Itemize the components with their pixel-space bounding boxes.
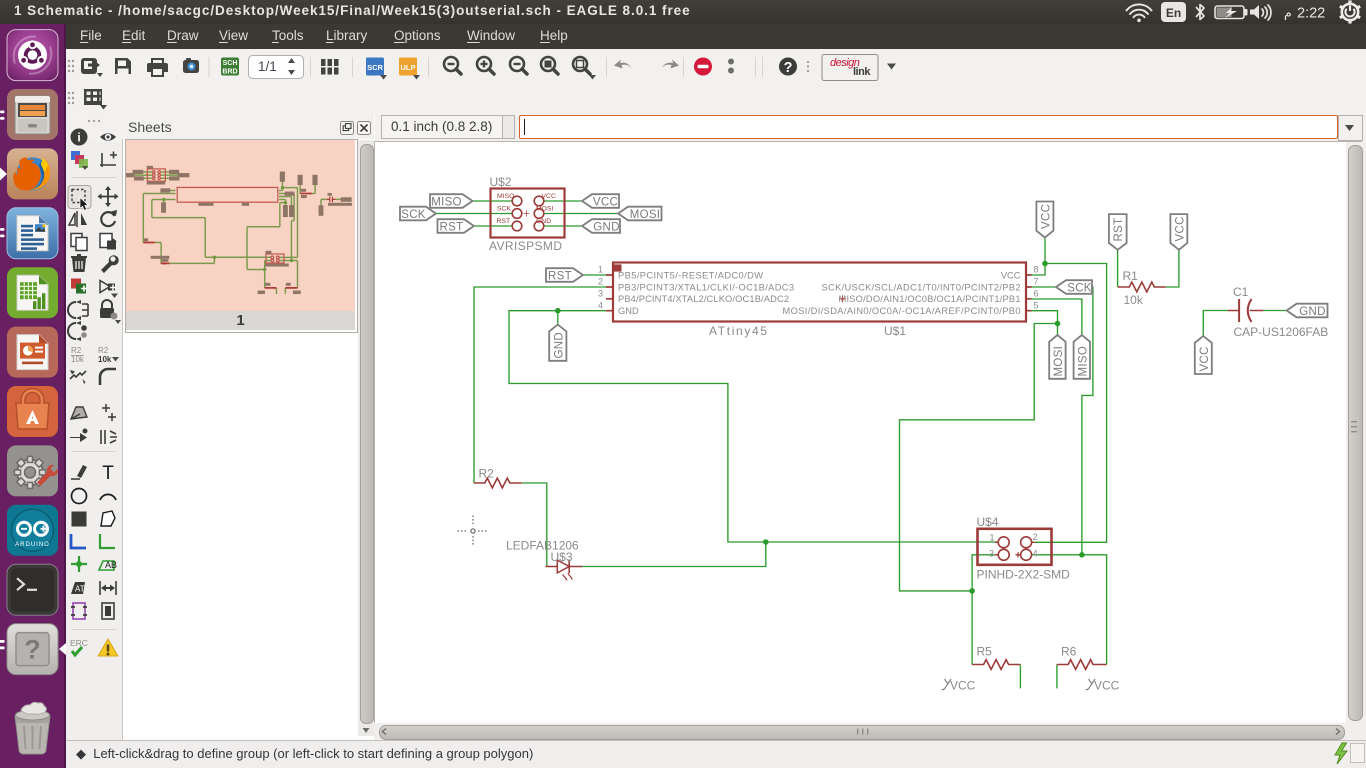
- coordinate display: [381, 115, 508, 139]
- svg-text:SCR: SCR: [367, 63, 383, 72]
- svg-text:RST: RST: [440, 222, 464, 234]
- svg-text:10k: 10k: [1124, 293, 1144, 307]
- U$4 pin stubs and origin cross: [995, 542, 1035, 557]
- supply flag GND below U$1 pin 4: [549, 325, 566, 361]
- wire LED U$3 to node at pin1 net: [582, 542, 766, 567]
- supply flag VCC above U$1 pin 8: [1036, 202, 1053, 238]
- svg-text:ULP: ULP: [401, 63, 416, 72]
- svg-text:T: T: [102, 463, 114, 484]
- svg-text:VCC: VCC: [542, 193, 556, 200]
- supply flag VCC at C1: [1195, 336, 1212, 374]
- svg-text:SCK: SCK: [401, 209, 426, 221]
- canvas horizontal scrollbar: [374, 723, 1362, 740]
- svg-text:AB: AB: [105, 560, 117, 570]
- U$1 left pin names: [618, 271, 794, 316]
- wire U$1 pin 8 to VCC flag: [1032, 238, 1046, 276]
- U$1 pin stubs: [606, 275, 1032, 311]
- wire U$1 pin 6 to MISO flag: [1032, 299, 1082, 335]
- wire U$4 pin 4 to R6: [1032, 555, 1107, 665]
- junction LED net: [763, 539, 769, 545]
- wire U$1 pin 2 to R2: [474, 287, 606, 483]
- svg-text:i: i: [77, 131, 80, 145]
- value 10k: [1124, 293, 1144, 307]
- wire U$1 pin 4 GND net: [509, 311, 998, 542]
- svg-text:AVRISPSMD: AVRISPSMD: [489, 239, 562, 253]
- svg-text:VCC: VCC: [950, 679, 976, 693]
- svg-text:MISO: MISO: [1077, 346, 1089, 377]
- toolbar icons: [66, 49, 966, 114]
- net flag MISO: [430, 194, 473, 208]
- svg-text:R2: R2: [71, 346, 82, 355]
- svg-text:MISO/DO/AIN1/OC0B/OC1A/PCINT1/: MISO/DO/AIN1/OC0B/OC1A/PCINT1/PB1: [839, 294, 1021, 304]
- wire U$1 pin 5 to MOSI flag: [1032, 311, 1058, 335]
- label U$4: [977, 515, 999, 529]
- header U$4 PINHD-2X2-SMD body: [978, 529, 1052, 565]
- U$1 pin numbers 8 7 6 5: [1034, 265, 1039, 311]
- svg-text:SCK/USCK/SCL/ADC1/T0/INT0/PCIN: SCK/USCK/SCL/ADC1/T0/INT0/PCINT2/PB2: [822, 282, 1021, 292]
- U$4 pin numbers: [989, 532, 1038, 558]
- net flag MISO below U$1: [1074, 335, 1090, 379]
- connector U$2 AVRISPSMD body: [491, 189, 565, 238]
- svg-text:SCK: SCK: [497, 206, 511, 213]
- svg-text:PB5/PCINT5/-RESET/ADC0/DW: PB5/PCINT5/-RESET/ADC0/DW: [618, 271, 763, 281]
- wire R5 open end: [1019, 665, 1021, 689]
- svg-text:AT: AT: [75, 585, 85, 594]
- wire VCC net to U$4 pin 2: [1032, 264, 1107, 543]
- svg-text:U$2: U$2: [490, 175, 512, 189]
- svg-text:3: 3: [989, 548, 994, 558]
- crosshair mouse cursor: [458, 516, 489, 547]
- svg-text:U$4: U$4: [977, 515, 999, 529]
- U$1 right pin names: [783, 271, 1021, 316]
- resistor R5: [972, 660, 1020, 670]
- svg-text:MOSI: MOSI: [630, 209, 661, 221]
- svg-text:2: 2: [598, 277, 603, 287]
- svg-text:BRD: BRD: [222, 69, 237, 76]
- U$2 pad circles: [512, 196, 544, 231]
- svg-text:10k: 10k: [71, 355, 85, 364]
- sheet 1 thumbnail mini schematic: [126, 140, 355, 311]
- svg-text:4: 4: [1033, 548, 1038, 558]
- wire VCC flag to C1: [1203, 311, 1228, 337]
- svg-text:U$3: U$3: [551, 550, 573, 564]
- svg-text:RST: RST: [497, 218, 511, 225]
- sheets panel scrollbar: [358, 140, 374, 736]
- junction SCK net at U$4 pin 4: [1079, 552, 1085, 558]
- wire U$1 pin 7 SCK net: [1032, 287, 1093, 555]
- svg-text:5: 5: [1034, 301, 1039, 311]
- svg-text:ATtiny45: ATtiny45: [709, 324, 767, 338]
- svg-text:VCC: VCC: [593, 197, 618, 209]
- svg-text:?: ?: [24, 635, 41, 665]
- label CAP-US1206FAB: [1234, 325, 1329, 339]
- svg-text:R5: R5: [977, 645, 993, 659]
- system tray icons: [1120, 0, 1366, 24]
- U$2 origin cross: [524, 211, 530, 217]
- svg-text:7: 7: [1034, 277, 1039, 287]
- svg-text:?: ?: [784, 60, 793, 76]
- label ATtiny45: [709, 324, 767, 338]
- svg-text:R6: R6: [1061, 645, 1077, 659]
- supply flag VCC above R1 right: [1170, 214, 1187, 250]
- svg-text:R1: R1: [1123, 269, 1139, 283]
- svg-text:U$1: U$1: [884, 324, 906, 338]
- canvas vertical scrollbar: [1346, 142, 1362, 723]
- resistor R1: [1118, 282, 1166, 292]
- junction on MOSI net: [1055, 321, 1061, 327]
- svg-text:SCH: SCH: [223, 60, 238, 67]
- svg-text:link: link: [853, 66, 871, 78]
- svg-text:VCC: VCC: [1094, 679, 1120, 693]
- wire U$2 to VCC flag: [544, 200, 582, 202]
- label R2: [479, 467, 495, 481]
- wire GND flag drop: [557, 311, 559, 325]
- junction on VCC net at pin 8: [1042, 261, 1048, 267]
- svg-text:RST: RST: [1113, 218, 1125, 242]
- command line input (focused): [519, 115, 1338, 139]
- net flag GND: [582, 219, 620, 233]
- svg-text:GND: GND: [618, 306, 639, 316]
- label C1: [1233, 285, 1249, 299]
- op-amp-style IC U$1 ATtiny45 body: [613, 263, 1026, 322]
- left tool palette: [66, 142, 122, 740]
- svg-text:GND: GND: [553, 332, 565, 358]
- net flag RST: [438, 219, 475, 233]
- label AVRISPSMD: [489, 239, 562, 253]
- net flag GND at C1: [1287, 304, 1328, 318]
- U$4 pad circles: [998, 537, 1031, 561]
- svg-text:م: م: [1284, 6, 1292, 21]
- supply symbol VCC under R6: [1086, 679, 1120, 693]
- supply flag RST above R1: [1109, 214, 1127, 250]
- wire RST flag to U$1 pin 1: [583, 274, 606, 276]
- label U$2: [490, 175, 512, 189]
- svg-text:VCC: VCC: [1174, 216, 1186, 241]
- svg-text:PINHD-2X2-SMD: PINHD-2X2-SMD: [977, 568, 1071, 582]
- svg-text:3: 3: [598, 289, 603, 299]
- wire R2 to LED U$3: [522, 483, 547, 567]
- canvas frame: [374, 142, 375, 723]
- canvas: [374, 142, 1346, 723]
- resistor R6: [1057, 660, 1107, 670]
- svg-text:ARDUINO: ARDUINO: [15, 542, 50, 548]
- svg-text:MOSI: MOSI: [1053, 346, 1065, 377]
- svg-text:1: 1: [990, 533, 995, 543]
- svg-text:8: 8: [1034, 265, 1039, 275]
- net flag MOSI: [618, 207, 662, 221]
- svg-text:CAP-US1206FAB: CAP-US1206FAB: [1234, 325, 1329, 339]
- svg-text:2: 2: [1033, 532, 1038, 542]
- svg-text:R2: R2: [98, 346, 109, 355]
- label U$1: [884, 324, 906, 338]
- LED U$3: [545, 560, 582, 581]
- svg-text:En: En: [1166, 6, 1181, 20]
- wire U$2 to GND flag: [544, 225, 582, 227]
- svg-text:PB4/PCINT4/XTAL2/CLKO/OC1B/ADC: PB4/PCINT4/XTAL2/CLKO/OC1B/ADC2: [618, 294, 789, 304]
- unity launcher: [0, 24, 64, 768]
- EAGLE menu bar: [66, 24, 1366, 49]
- label R1: [1123, 269, 1139, 283]
- label LEDFAB1206: [506, 539, 579, 553]
- svg-text:MOSI/DI/SDA/AIN0/OC0A/-OC1A/AR: MOSI/DI/SDA/AIN0/OC0A/-OC1A/AREF/PCINT0/…: [783, 306, 1021, 316]
- svg-text:R2: R2: [479, 467, 495, 481]
- net flag VCC: [582, 194, 619, 208]
- svg-text:MOSI: MOSI: [536, 206, 553, 213]
- status bar: [66, 740, 1366, 768]
- svg-text:C1: C1: [1233, 285, 1249, 299]
- svg-text:6: 6: [1034, 289, 1039, 299]
- svg-text:RST: RST: [548, 271, 572, 283]
- wire MISO flag to U$2: [473, 200, 513, 202]
- svg-text:GND: GND: [593, 222, 619, 234]
- U$1 origin cross: [839, 295, 846, 302]
- svg-text:MISO: MISO: [431, 197, 462, 209]
- svg-text:GND: GND: [536, 218, 551, 225]
- label U$3: [551, 550, 573, 564]
- junction on GND net at pin 4: [555, 308, 561, 314]
- net flag SCK: [400, 207, 436, 221]
- svg-text:VCC: VCC: [1001, 271, 1021, 281]
- toolbars: [66, 49, 1366, 84]
- svg-text:SCK: SCK: [1067, 283, 1092, 295]
- svg-text:VCC: VCC: [1199, 346, 1211, 371]
- svg-text:4: 4: [598, 301, 603, 311]
- svg-text:GND: GND: [1299, 306, 1325, 318]
- svg-text:VCC: VCC: [1040, 204, 1052, 229]
- wire U$2 to MOSI flag: [544, 213, 618, 215]
- sheets dock: [122, 114, 375, 740]
- net flag SCK at U$1 pin 7: [1056, 280, 1092, 294]
- net flag MOSI below U$1: [1049, 335, 1065, 379]
- svg-text:1/1: 1/1: [258, 59, 277, 74]
- label R6: [1061, 645, 1077, 659]
- junction R5 net: [969, 588, 975, 594]
- svg-text:10k: 10k: [98, 355, 112, 364]
- wire U$4 pin 3 to R5: [972, 555, 998, 665]
- wire SCK flag to U$2: [436, 213, 512, 215]
- svg-text:MISO: MISO: [497, 193, 514, 200]
- wire R6 open end: [1056, 665, 1058, 689]
- right window margin: [1362, 142, 1366, 740]
- net flag RST at U$1 pin 1: [546, 268, 583, 282]
- svg-text:PB3/PCINT3/XTAL1/CLKI/-OC1B/AD: PB3/PCINT3/XTAL1/CLKI/-OC1B/ADC3: [618, 282, 794, 292]
- sheet thumbnail frame: [125, 139, 358, 333]
- svg-text:2:22: 2:22: [1297, 6, 1325, 22]
- resistor R2: [474, 478, 522, 488]
- capacitor C1: [1228, 299, 1264, 322]
- svg-text:ERC: ERC: [70, 638, 88, 648]
- U$1 pin numbers 1 2 3 4: [598, 265, 603, 311]
- svg-text:1: 1: [598, 265, 603, 275]
- label R5: [977, 645, 993, 659]
- status bar right icons: [1326, 741, 1366, 767]
- wire R1 to VCC flag: [1166, 250, 1179, 287]
- Ubuntu top panel: [0, 0, 1366, 24]
- wire RST flag to R1: [1117, 250, 1119, 287]
- wire RST flag to U$2: [474, 225, 512, 227]
- U$2 pin names: [497, 193, 556, 225]
- wire C1 to GND flag: [1263, 310, 1286, 312]
- label PINHD-2X2-SMD: [977, 568, 1071, 582]
- supply symbol VCC under R5: [942, 679, 976, 693]
- wire MOSI net branch to R5: [900, 324, 1058, 591]
